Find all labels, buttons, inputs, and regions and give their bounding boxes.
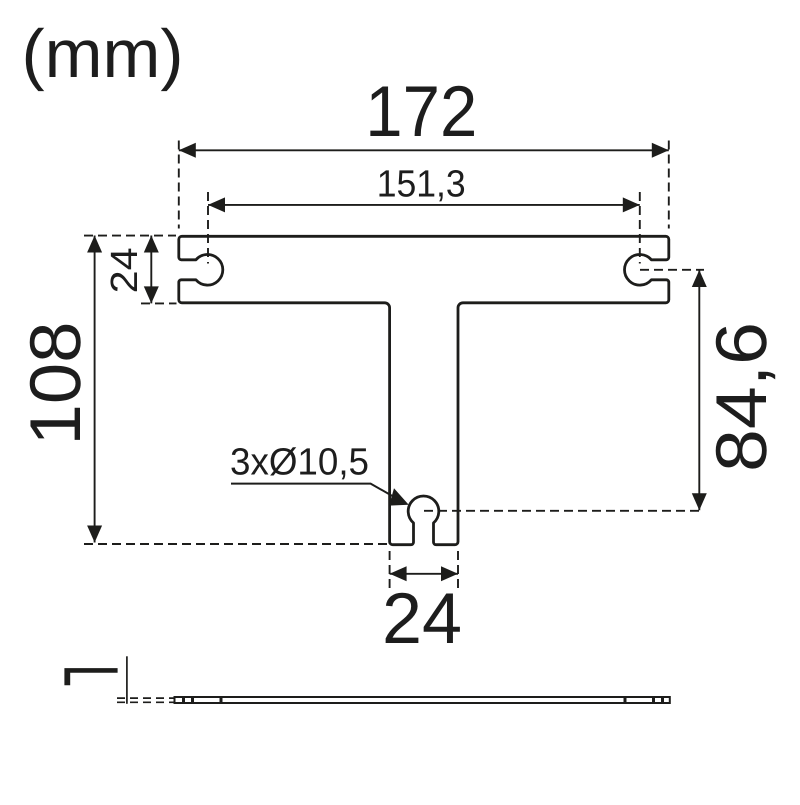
label 3xØ10,5: leader arrow: [389, 488, 409, 505]
dimension 108: top arrow: [87, 236, 102, 253]
dimension 151,3: left arrow: [208, 197, 225, 212]
dimension 151,3: right arrow: [623, 197, 640, 212]
svg-text:84,6: 84,6: [702, 322, 782, 472]
side view: slot tick 4: [624, 697, 627, 704]
dimension 24 bottom: left arrow: [390, 566, 407, 581]
dimension 151,3: left extension dashed centre line: [207, 192, 209, 264]
side view: slot tick 6: [661, 697, 664, 704]
svg-text:151,3: 151,3: [377, 163, 466, 205]
dimension 172: right extension dashed line: [668, 141, 670, 229]
dimension 172: left arrow: [179, 143, 196, 158]
dimension 108: line: [94, 236, 96, 543]
svg-text:3xØ10,5: 3xØ10,5: [230, 442, 369, 484]
dimension 24 bottom: right arrow: [441, 566, 458, 581]
side view: slot tick 5: [652, 697, 655, 704]
side view: slot tick 1: [182, 697, 185, 704]
dimension 84,6: top extension dashed centre line: [640, 269, 704, 271]
dimension 24 top-left: bottom extension dashed line: [141, 302, 177, 304]
side view: plate outline: [175, 697, 670, 703]
T-profile outline with three keyhole slots: [179, 236, 669, 544]
dimension 151,3: right extension dashed centre line: [639, 192, 641, 264]
dimension 24 top-left: line: [150, 236, 152, 304]
dimension 84,6: bottom extension dashed centre line: [424, 510, 704, 512]
dimension 172: right arrow: [652, 143, 669, 158]
dimension 24 bottom: left extension dashed line: [389, 551, 391, 592]
dimension 172: left extension dashed line: [178, 141, 180, 229]
dimension 84,6: line: [698, 270, 700, 510]
svg-text:108: 108: [16, 322, 96, 446]
dimension 84,6: bottom arrow: [692, 493, 707, 510]
dimension 24 bottom: right extension dashed line: [457, 551, 459, 592]
label 3xØ10,5: leader line: [231, 484, 402, 502]
dimension 172: line: [179, 149, 669, 151]
svg-text:24: 24: [382, 579, 462, 659]
dimension 24 top-left: top arrow: [144, 236, 159, 253]
side view: dashed link bottom: [117, 701, 174, 703]
dimension 108: bottom arrow: [87, 526, 102, 543]
side view: thickness dimension line: [126, 656, 128, 704]
side view: slot tick 3: [220, 697, 223, 704]
dimension 24 top-left: bottom arrow: [144, 286, 159, 303]
side view: dashed link top: [117, 697, 174, 699]
svg-text:(mm): (mm): [22, 16, 184, 92]
dimension 151,3: line: [208, 204, 640, 206]
side view: slot tick 2: [191, 697, 194, 704]
dimension 108: bottom extension dashed line: [84, 543, 388, 545]
dimension 24 bottom: line: [390, 573, 458, 575]
dimension 108: top extension dashed line: [84, 235, 176, 237]
svg-text:172: 172: [365, 72, 477, 152]
side view: thickness value 1 (rotated): [64, 668, 117, 685]
svg-text:24: 24: [104, 247, 146, 293]
dimension 84,6: top arrow: [692, 270, 707, 287]
